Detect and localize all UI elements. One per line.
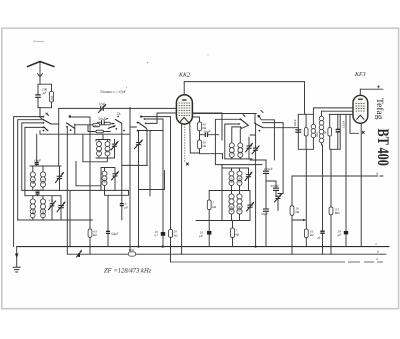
osc to IF wire [263, 127, 298, 129]
resistor 500 [50, 84, 54, 108]
resistor 7k a [207, 191, 216, 231]
coil L2a [30, 196, 35, 220]
wire ladder h4 [25, 127, 44, 195]
svg-text:1.35/4: 1.35/4 [342, 120, 346, 128]
S4 contact wires [254, 114, 256, 124]
svg-text:03: 03 [238, 151, 242, 155]
wire v157 up [157, 113, 222, 140]
cap in secondary [336, 114, 340, 149]
wire v331 + resistor 0.5M [330, 149, 332, 207]
svg-text:03: 03 [97, 150, 101, 154]
wire to switch [40, 108, 42, 119]
svg-text:150/4: 150/4 [293, 119, 297, 126]
svg-text:Tefag: Tefag [374, 98, 384, 120]
switch S1b contacts [66, 115, 74, 131]
trimmer T3 [111, 140, 118, 159]
tube KK2 [176, 82, 192, 125]
coil L2b [40, 196, 45, 220]
scan specks [33, 40, 44, 42]
svg-text:µF: µF [199, 234, 203, 238]
svg-text:4.7: 4.7 [154, 234, 158, 238]
svg-text:1100: 1100 [238, 177, 242, 183]
resistor 10k osc [290, 176, 300, 254]
avc wire [292, 219, 305, 221]
rail coils3 bottom [96, 157, 115, 159]
wire antenna to S1 [40, 108, 44, 117]
wire v74.8 [74, 124, 76, 134]
coil LCb [237, 191, 242, 221]
capacitor 100pF [35, 84, 51, 108]
svg-text:4100: 4100 [230, 206, 234, 213]
loop h189.5 [139, 171, 165, 190]
svg-text:10µF: 10µF [34, 159, 41, 163]
resistor below 540 [96, 130, 104, 133]
svg-text:800: 800 [230, 178, 234, 183]
svg-text:Trimmer c.=17pF: Trimmer c.=17pF [100, 90, 127, 94]
cap 10uF lower [35, 188, 42, 196]
svg-text:200µF: 200µF [271, 184, 280, 188]
svg-text:500: 500 [50, 95, 54, 100]
trimmer T5 [135, 140, 143, 248]
svg-text:02: 02 [230, 151, 234, 155]
svg-text:540: 540 [93, 124, 98, 127]
wires around 540 [88, 125, 110, 132]
cap 50uF osc [261, 188, 269, 247]
svg-text:50nF: 50nF [99, 117, 107, 121]
junction on grid wire [129, 107, 131, 109]
trimmer T1 [56, 166, 64, 190]
wire ladder h1 [14, 117, 44, 247]
trimmer TB [252, 146, 259, 248]
svg-text:800: 800 [103, 178, 107, 183]
wire contact to v90 [72, 116, 91, 118]
rail coils2 top [25, 195, 61, 197]
svg-text:02: 02 [106, 150, 110, 154]
rail below coil4 [105, 190, 129, 195]
wire antenna down [39, 77, 41, 84]
nest wire y119.3 [215, 119, 240, 164]
nest wires [141, 116, 170, 118]
svg-text:4.11: 4.11 [49, 199, 55, 203]
wire v150 [149, 131, 151, 197]
svg-text:µF: µF [338, 233, 342, 237]
plus mark [377, 85, 380, 88]
svg-text:KK2: KK2 [178, 73, 190, 79]
trimmer TC [247, 191, 254, 221]
svg-text:50µF: 50µF [111, 232, 119, 236]
cap 150uF [263, 160, 273, 188]
coil L1a [30, 166, 35, 190]
anode rail a. [292, 175, 383, 177]
wire switch2 down [36, 134, 38, 161]
resistor 10k IF [304, 229, 314, 247]
trimmer T4 [112, 172, 119, 191]
KF3 left wires [313, 108, 353, 114]
svg-text:0500: 0500 [41, 209, 45, 216]
switch S3 lever [240, 119, 248, 125]
KF3 grid cap wire [360, 88, 383, 90]
coil LAa [229, 143, 234, 159]
resistor 20 [169, 117, 178, 262]
wire with 50nF cap [98, 122, 111, 125]
svg-text:KF3: KF3 [354, 72, 366, 78]
svg-text:10µF: 10µF [35, 188, 42, 192]
coil primary on right leg [311, 124, 319, 137]
antenna A [28, 62, 55, 78]
switch bank S2 [106, 116, 125, 132]
resistor mid primary [304, 128, 308, 136]
cap 10uF upper [34, 159, 41, 167]
wire lever1 to v58.7 [51, 124, 59, 166]
coil L1b [40, 166, 45, 190]
ground [13, 247, 21, 272]
svg-text:4300: 4300 [238, 206, 242, 213]
fuse on bus a [128, 249, 135, 256]
resistor 7k b [231, 221, 240, 247]
svg-text:1743: 1743 [129, 249, 135, 252]
svg-text:ZF =128/473 kHz: ZF =128/473 kHz [104, 268, 152, 275]
wire into 540 [75, 124, 93, 126]
rail coilsA bottom [225, 158, 252, 160]
x mark [186, 163, 189, 166]
coil LBa [229, 168, 234, 191]
trimmer TD [275, 194, 282, 211]
trimmer on bus a [77, 250, 82, 257]
wire ladder h2 [18, 120, 44, 220]
switch S2b [137, 116, 147, 132]
trimmer TA [246, 137, 253, 159]
wire v82.9 [82, 134, 84, 162]
switch S4 [254, 111, 263, 132]
long mid rail [22, 189, 129, 191]
cap 10uF bottom [199, 231, 211, 247]
rail coilsB top [222, 165, 249, 168]
rail under S1 [40, 131, 130, 135]
svg-text:850: 850 [31, 179, 35, 184]
svg-text:25: 25 [317, 236, 321, 240]
resistor in secondary [328, 128, 332, 136]
wire junction v130 [129, 108, 131, 254]
coil L3b [105, 140, 110, 159]
rail coils1 top [30, 165, 61, 167]
nest wire y124 [225, 124, 239, 159]
coil middle 50 [319, 111, 327, 145]
KF3 bottom leads [350, 114, 359, 133]
grid wire y108.4 [59, 107, 177, 109]
coil LCa [229, 191, 234, 221]
svg-text:50µF: 50µF [261, 212, 268, 216]
wire v58.7 top [58, 108, 60, 124]
bus c [17, 246, 389, 248]
bus a [68, 253, 387, 255]
resistor 40k [198, 122, 207, 131]
anode drop [304, 82, 306, 115]
nest wire y126.9 [232, 127, 241, 143]
wire v121.8 with 5uF [120, 123, 128, 220]
switch bank S1 [43, 114, 52, 132]
bottom rail left block [18, 219, 93, 221]
wire v186 dotted to x [184, 124, 186, 162]
IF verticals to bus [305, 149, 307, 229]
vertical x108 with 50uF [106, 195, 119, 246]
svg-text:µF: µF [124, 206, 128, 210]
wire v346 + cap 20uF [338, 114, 349, 246]
rail y165.4 mid [122, 164, 148, 166]
wire v147 [145, 128, 148, 165]
S4 lower wires [250, 134, 256, 136]
cap 200uF [271, 184, 280, 196]
svg-text:350: 350 [315, 132, 319, 137]
svg-text:50: 50 [323, 131, 327, 135]
cap 50uF mid [200, 129, 219, 137]
cap 10/4.7 [154, 119, 165, 248]
IF secondary loop [330, 114, 341, 149]
cathode lead [190, 123, 200, 154]
vertical x90 + resistor 4.5k [89, 117, 91, 229]
coil LAb [238, 125, 249, 159]
vertical x70 [69, 190, 71, 246]
svg-text:150µF: 150µF [264, 167, 273, 171]
wire v183 heater [181, 124, 183, 255]
svg-text:a.: a. [376, 172, 379, 176]
rail coils3 top [96, 140, 110, 142]
coil LBb [237, 168, 242, 191]
tube KF3 [353, 89, 368, 123]
coil L3a [97, 140, 102, 159]
svg-text:BT 400: BT 400 [374, 129, 392, 166]
svg-text:0800: 0800 [31, 209, 35, 216]
x mark KF3 [362, 131, 365, 134]
trimmer T2b [49, 196, 56, 220]
svg-text:4Ω: 4Ω [174, 234, 179, 238]
resistor 50k [198, 135, 223, 159]
svg-text:MΩ: MΩ [334, 211, 341, 215]
trimmer TBt [245, 168, 252, 191]
wire ladder h3 [22, 123, 44, 190]
coil4 loop [101, 168, 115, 191]
resistor 540 box [93, 123, 100, 127]
IF primary loop [298, 114, 313, 149]
trimmer on grid wire [99, 105, 106, 113]
rail coilsC bottom [196, 191, 250, 221]
cap on left leg [295, 130, 301, 132]
cap 50nF [102, 120, 105, 124]
wire v67.3 long [66, 128, 68, 255]
trimmer T2 [57, 196, 65, 220]
rail coilsB bottom / C top [209, 168, 250, 191]
wire v322.5 + cap 25uF [317, 145, 325, 254]
svg-text:a: a [377, 250, 379, 254]
wire v138.5 [138, 131, 139, 143]
svg-text:1.33: 1.33 [41, 179, 45, 185]
wires osc caps top [250, 159, 266, 161]
anode wire KK2 [184, 81, 304, 83]
bus e [171, 261, 384, 263]
KK2 right leads [192, 113, 256, 115]
wire v76 lower [76, 161, 101, 186]
